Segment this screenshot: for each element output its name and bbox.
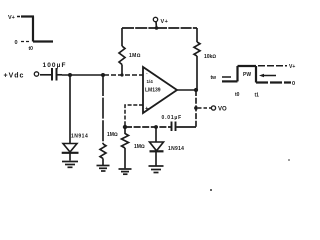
stray mark <box>210 189 212 191</box>
resistor R3 10k pullup <box>194 28 216 90</box>
svg-text:V+: V+ <box>289 64 295 70</box>
svg-text:0: 0 <box>15 40 18 46</box>
svg-text:0.01µF: 0.01µF <box>162 115 182 121</box>
svg-text:LM139: LM139 <box>145 88 161 94</box>
wire dashed segment to op-amp minus input <box>104 74 143 76</box>
wire op-amp output <box>177 89 196 91</box>
capacitor C2 0.01uF <box>162 115 197 131</box>
svg-text:1MΩ: 1MΩ <box>107 132 118 138</box>
svg-text:0: 0 <box>292 81 295 87</box>
ground under D2 <box>149 166 164 173</box>
svg-text:-: - <box>146 71 148 77</box>
svg-text:PW: PW <box>243 72 251 78</box>
+Vdc input terminal <box>4 72 39 80</box>
wire top rail <box>122 27 156 29</box>
resistor R4 1M <box>122 127 145 168</box>
node junction dot output <box>194 88 198 92</box>
svg-text:1MΩ: 1MΩ <box>134 144 145 150</box>
svg-text:t0: t0 <box>235 92 240 98</box>
wire output vertical <box>195 90 197 127</box>
svg-text:1/4: 1/4 <box>147 79 154 84</box>
wire main input node <box>62 74 104 76</box>
diode D1 1N914 <box>62 75 89 161</box>
node junction dot A <box>68 73 72 77</box>
svg-text:1MΩ: 1MΩ <box>129 53 141 59</box>
capacitor C1 100uF <box>40 62 67 81</box>
diode D2 1N914 <box>150 127 185 166</box>
node junction dot C <box>120 73 123 76</box>
svg-text:tw: tw <box>211 75 217 81</box>
svg-text:+: + <box>145 107 149 113</box>
node junction dot D2 top <box>154 125 158 129</box>
input step waveform <box>8 15 53 52</box>
svg-text:1N914: 1N914 <box>71 134 88 140</box>
ground under R4 <box>119 169 132 174</box>
resistor R2 1M <box>100 75 118 165</box>
wire feedback node <box>125 126 171 128</box>
wire op-amp plus input <box>125 105 143 127</box>
svg-text:100µF: 100µF <box>43 62 67 69</box>
node junction dot VO <box>194 106 198 110</box>
svg-text:V+: V+ <box>8 15 15 21</box>
ground under R2 <box>97 166 110 172</box>
svg-text:V+: V+ <box>161 19 169 25</box>
stray mark <box>288 159 290 161</box>
svg-text:10kΩ: 10kΩ <box>204 54 216 60</box>
output terminal VO <box>198 106 227 113</box>
svg-text:t0: t0 <box>29 46 34 52</box>
resistor R1 1M <box>119 28 141 75</box>
ground under D1 <box>62 162 78 168</box>
node junction dot V+ <box>155 26 159 30</box>
V+ supply terminal <box>153 17 168 28</box>
node junction dot B <box>101 73 105 77</box>
svg-text:VO: VO <box>218 107 227 113</box>
output pulse waveform <box>211 64 296 98</box>
svg-text:+Vdc: +Vdc <box>4 73 25 80</box>
op-amp U1 1/4 LM139 <box>143 67 177 113</box>
svg-text:t1: t1 <box>255 92 260 98</box>
node junction dot plus-input <box>123 125 127 129</box>
svg-text:1N914: 1N914 <box>168 146 184 152</box>
